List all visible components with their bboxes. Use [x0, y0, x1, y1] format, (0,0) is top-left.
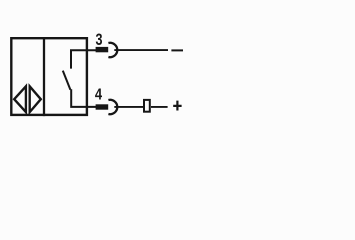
minus supply symbol	[171, 49, 183, 51]
pin 4 male tab	[96, 104, 109, 109]
sensor body outline	[11, 38, 87, 115]
wire from switch to pin 3	[71, 50, 96, 68]
proximity sensor symbol right triangle	[30, 86, 41, 112]
load resistor	[144, 100, 150, 112]
wire pin 4 to load	[114, 106, 143, 108]
pin 3 male tab	[96, 47, 109, 52]
svg-text:3: 3	[96, 31, 103, 49]
wire from switch to pin 4	[71, 89, 96, 107]
proximity sensor symbol left triangle	[14, 86, 26, 112]
svg-text:4: 4	[95, 87, 102, 104]
wire pin 3 to minus	[114, 49, 168, 51]
pin 3 socket arc	[108, 43, 117, 57]
pin 4 socket arc	[108, 100, 117, 114]
wire load to plus	[151, 106, 168, 108]
sensor body divider	[43, 37, 45, 116]
plus supply symbol	[173, 101, 181, 111]
switch blade (NO contact)	[63, 71, 71, 90]
